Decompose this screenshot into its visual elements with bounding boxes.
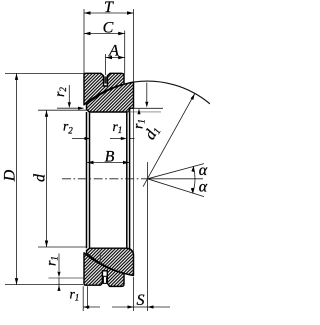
svg-text:D: D bbox=[2, 169, 19, 182]
svg-text:d: d bbox=[32, 173, 49, 182]
svg-text:S: S bbox=[137, 292, 145, 309]
svg-text:A: A bbox=[108, 43, 119, 60]
svg-text:α: α bbox=[199, 179, 208, 196]
svg-text:T: T bbox=[104, 0, 114, 16]
svg-text:C: C bbox=[103, 20, 114, 37]
svg-text:B: B bbox=[105, 149, 115, 166]
svg-text:α: α bbox=[199, 162, 208, 179]
